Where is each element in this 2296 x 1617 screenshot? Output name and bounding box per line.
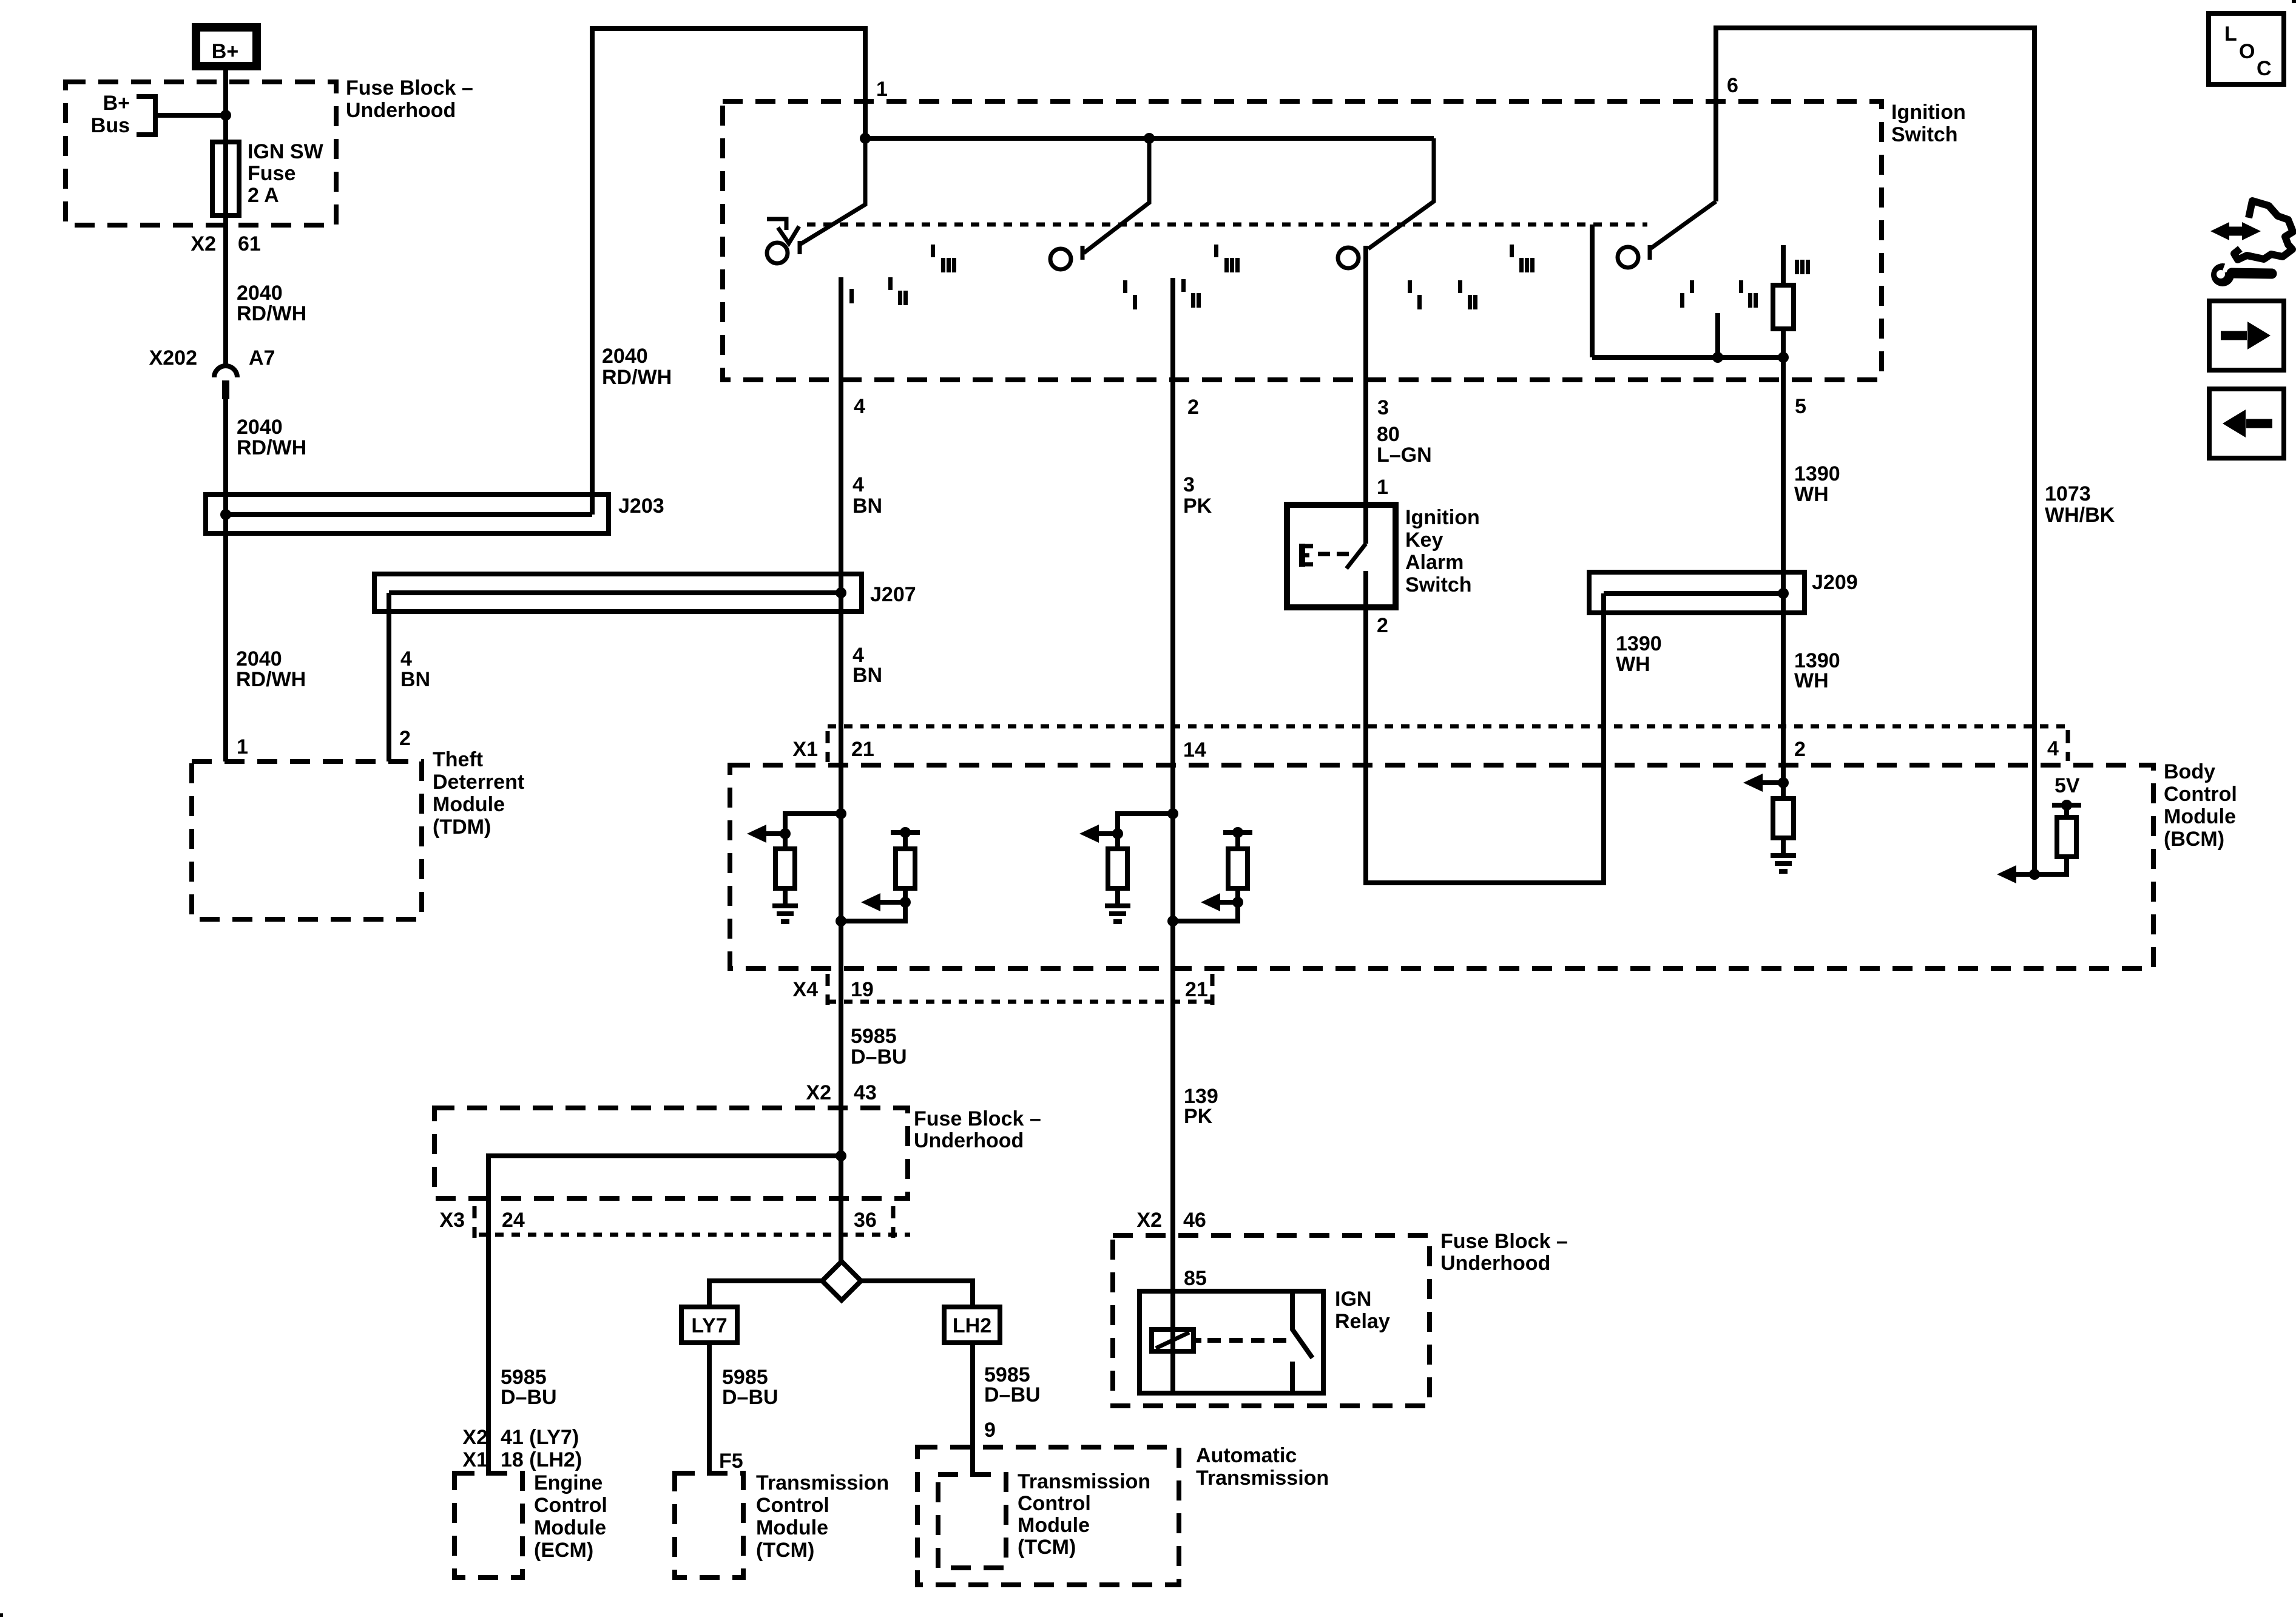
mechanical coupling dotted line [807, 223, 1647, 227]
svg-text:PK: PK [1183, 495, 1212, 518]
svg-text:Control: Control [756, 1494, 829, 1517]
wire BCM branch A [785, 814, 841, 849]
svg-text:1073: 1073 [2045, 482, 2091, 505]
wire 2040 RD/WH down to TDM [223, 398, 228, 761]
wire J203 internal bus [226, 512, 592, 517]
svg-text:Fuse Block –: Fuse Block – [346, 76, 473, 100]
svg-text:2: 2 [1794, 738, 1806, 761]
contact circle switch 2 [1050, 249, 1071, 269]
Ignition Key Alarm Switch box [1287, 505, 1396, 607]
relay coil [1152, 1329, 1194, 1351]
svg-text:LY7: LY7 [691, 1314, 727, 1337]
svg-text:36: 36 [854, 1209, 877, 1232]
svg-text:Fuse: Fuse [248, 162, 295, 185]
svg-text:Underhood: Underhood [346, 99, 456, 122]
svg-text:Key: Key [1405, 528, 1443, 552]
svg-text:L: L [2224, 22, 2237, 46]
key actuation dashes [1318, 552, 1354, 556]
svg-text:Module: Module [1018, 1514, 1090, 1537]
switch wiper 2 [1084, 138, 1149, 253]
arrow (internal signal, branch D) [1220, 900, 1238, 905]
arrow (internal signal, branch F) [2016, 872, 2034, 877]
icon diagnostic zigzag outline [2234, 201, 2293, 260]
svg-text:Transmission: Transmission [1196, 1467, 1329, 1490]
connector X1 bracket left [826, 731, 830, 762]
svg-text:WH: WH [1794, 669, 1829, 692]
svg-text:Module: Module [2164, 805, 2236, 828]
node 1073 wire end [2029, 869, 2040, 880]
svg-text:C: C [2257, 57, 2272, 80]
connector X3 line (fine dotted) [479, 1233, 910, 1237]
icon diagnostic double arrow [2226, 227, 2245, 236]
svg-text:Ignition: Ignition [1405, 506, 1480, 529]
Body Control Module box (dashed) [730, 765, 2153, 968]
page artifact top-right [2292, 0, 2296, 3]
ground (BCM C) [1105, 906, 1130, 922]
wire alarm switch pin 2 to J209 splice [1366, 571, 1604, 883]
ground (BCM E) [1771, 856, 1796, 871]
icon LOC box [2209, 13, 2284, 84]
wire B+ down through fuse [223, 66, 228, 366]
resistor (ignition switch internal) [1781, 245, 1786, 285]
svg-text:Relay: Relay [1335, 1310, 1390, 1333]
svg-text:BN: BN [853, 495, 882, 518]
wire pin 4 (4 BN) down through J207 and BCM to fuse block [839, 277, 843, 1262]
svg-text:9: 9 [984, 1419, 996, 1442]
svg-text:Deterrent: Deterrent [433, 771, 524, 794]
svg-text:6: 6 [1727, 74, 1738, 97]
icon arrow-right box [2209, 301, 2284, 370]
switch 1 position mark II [888, 277, 893, 290]
svg-text:A7: A7 [249, 346, 275, 370]
resistor (BCM pull-up F) [2064, 805, 2069, 817]
svg-text:BN: BN [400, 668, 430, 691]
svg-text:(TCM): (TCM) [756, 1539, 814, 1562]
wire pin 6 (1073 WH/BK) up over and down right side [1716, 28, 2034, 874]
svg-text:D–BU: D–BU [851, 1045, 907, 1068]
svg-text:4: 4 [400, 647, 412, 670]
alarm switch blade [1346, 544, 1366, 569]
svg-text:WH: WH [1616, 653, 1650, 676]
svg-text:Switch: Switch [1405, 573, 1472, 596]
svg-text:Fuse Block –: Fuse Block – [914, 1107, 1041, 1130]
svg-text:Module: Module [756, 1516, 828, 1539]
svg-text:Body: Body [2164, 760, 2215, 783]
svg-text:Control: Control [2164, 783, 2237, 806]
Fuse Block - Underhood box 3 (dashed) [1113, 1235, 1430, 1406]
node J209 splice [1778, 588, 1789, 599]
resistor (BCM pull-down C) [1108, 849, 1127, 888]
svg-text:PK: PK [1184, 1105, 1213, 1128]
svg-text:Engine: Engine [534, 1471, 603, 1494]
wire J207 internal bus [389, 590, 841, 595]
svg-text:X2: X2 [1136, 1209, 1162, 1232]
switch wiper 3 [1368, 138, 1434, 249]
svg-text:5985: 5985 [851, 1025, 897, 1048]
svg-text:IGN SW: IGN SW [248, 140, 324, 163]
svg-text:X1: X1 [792, 738, 818, 761]
ground (BCM A) [772, 906, 798, 922]
Fuse Block - Underhood box (top left, dashed) [66, 82, 336, 225]
arrow (internal signal, branch C) [1098, 831, 1118, 836]
svg-text:Module: Module [534, 1516, 606, 1539]
switch 2 position mark I [1123, 280, 1127, 293]
LY7 engine code box [681, 1307, 737, 1343]
connector X4 line (fine dotted) [828, 1000, 1214, 1004]
svg-text:LH2: LH2 [953, 1314, 991, 1337]
svg-text:J209: J209 [1812, 571, 1858, 594]
svg-text:X1: X1 [462, 1448, 488, 1471]
switch 3 position mark II [1458, 280, 1462, 293]
B+ terminal box [196, 27, 257, 66]
svg-text:2: 2 [1187, 396, 1199, 419]
svg-text:2 A: 2 A [248, 184, 279, 207]
svg-text:(TCM): (TCM) [1018, 1536, 1076, 1559]
svg-text:24: 24 [502, 1209, 525, 1232]
svg-text:Bus: Bus [91, 114, 130, 137]
svg-text:(TDM): (TDM) [433, 815, 491, 839]
svg-text:Transmission: Transmission [756, 1471, 889, 1494]
splice J209 box [1589, 572, 1805, 613]
key symbol E [1299, 544, 1305, 567]
svg-text:Automatic: Automatic [1196, 1444, 1297, 1467]
Engine Control Module box (dashed) [454, 1473, 522, 1578]
svg-text:RD/WH: RD/WH [237, 302, 306, 325]
svg-text:4: 4 [2047, 737, 2059, 760]
svg-text:Transmission: Transmission [1018, 1470, 1150, 1493]
page artifact bottom-left [0, 1613, 3, 1617]
switch wiper 1 [800, 138, 865, 245]
wire pin 5 (1390 WH) down through J209 to BCM [1781, 357, 1786, 783]
svg-text:61: 61 [238, 232, 261, 255]
svg-text:X2: X2 [806, 1081, 831, 1104]
svg-text:O: O [2239, 40, 2255, 63]
svg-text:Module: Module [433, 793, 505, 816]
node BCM wire C lower junction [1167, 916, 1178, 927]
svg-text:5V: 5V [2055, 774, 2080, 797]
resistor (BCM pull-down E) [1781, 783, 1786, 798]
splice diamond [822, 1261, 861, 1300]
svg-text:46: 46 [1183, 1209, 1206, 1232]
arrow (internal signal, branch E) [1762, 780, 1783, 785]
node BCM input E junction [1778, 777, 1789, 788]
node branch C [1112, 828, 1123, 839]
connector X4 bracket left [826, 974, 830, 1005]
svg-text:Alarm: Alarm [1405, 551, 1464, 574]
node bus/pin1 [860, 133, 871, 144]
wire BCM branch C [1118, 814, 1173, 849]
wire 4 BN branch to TDM pin 2 [387, 593, 391, 761]
wire diamond left branch [709, 1281, 822, 1307]
svg-text:4: 4 [854, 395, 865, 418]
arrow (internal signal, branch B) [880, 900, 905, 905]
connector X3 bracket left [473, 1206, 477, 1238]
node arrow B [900, 897, 911, 908]
node BCM input C junction [1167, 808, 1178, 819]
svg-text:5: 5 [1795, 395, 1806, 418]
svg-text:4: 4 [853, 473, 864, 496]
svg-text:2040: 2040 [236, 647, 282, 670]
svg-text:D–BU: D–BU [722, 1386, 778, 1409]
svg-text:2040: 2040 [237, 282, 283, 305]
svg-text:D–BU: D–BU [501, 1386, 557, 1409]
svg-text:3: 3 [1183, 473, 1195, 496]
connector X1 bracket right [2066, 730, 2070, 761]
node J207 splice [836, 587, 846, 598]
svg-text:3: 3 [1377, 396, 1389, 419]
svg-text:X2: X2 [191, 232, 216, 255]
svg-text:Underhood: Underhood [1440, 1252, 1550, 1275]
svg-text:X3: X3 [439, 1209, 465, 1232]
svg-text:D–BU: D–BU [984, 1383, 1041, 1406]
node bus/switch2 [1144, 133, 1155, 144]
svg-text:B+: B+ [103, 92, 130, 115]
svg-text:Control: Control [534, 1494, 607, 1517]
svg-text:RD/WH: RD/WH [602, 366, 672, 389]
IGN Relay box [1140, 1291, 1323, 1393]
arrow (internal signal, branch A) [766, 831, 785, 836]
connector X4 bracket right [1210, 974, 1215, 1005]
svg-text:Ignition: Ignition [1891, 101, 1966, 124]
voltage tap crossbar (BCM B) [891, 830, 920, 835]
svg-text:80: 80 [1377, 423, 1400, 446]
Theft Deterrent Module box (dashed) [192, 761, 422, 919]
wire pin 3 (80 L-GN) to ignition key alarm switch [1363, 246, 1368, 544]
svg-text:2: 2 [399, 727, 411, 750]
svg-text:Fuse Block –: Fuse Block – [1440, 1230, 1568, 1253]
switch 1 position mark III [931, 245, 935, 257]
fuse IGN SW Fuse 2A [212, 142, 239, 215]
svg-text:18 (LH2): 18 (LH2) [501, 1448, 582, 1471]
svg-text:41 (LY7): 41 (LY7) [501, 1426, 579, 1449]
svg-text:1390: 1390 [1794, 462, 1840, 485]
relay coil stub [1194, 1338, 1201, 1343]
switch 2 position mark III [1214, 245, 1218, 257]
voltage tap crossbar (BCM F 5V) [2052, 803, 2081, 808]
Transmission Control Module box 1 (dashed) [675, 1473, 743, 1578]
switch 3 position mark I [1408, 280, 1412, 293]
node arrow D [1232, 897, 1243, 908]
node resistor junction [1778, 352, 1789, 363]
relay contact [1292, 1291, 1312, 1358]
wire 2040 RD/WH riser to ignition switch pin 1 [592, 29, 865, 515]
connector X3 bracket right [891, 1206, 896, 1238]
Ignition Switch box (dashed) [723, 101, 1882, 380]
connector X202 A7 inline symbol [214, 366, 237, 377]
LH2 engine code box [944, 1307, 1000, 1343]
node fuse block 2 splice [836, 1150, 846, 1161]
switch 3 position mark III [1510, 245, 1514, 257]
svg-text:14: 14 [1183, 738, 1206, 761]
svg-text:1: 1 [237, 735, 248, 758]
svg-text:J207: J207 [870, 583, 916, 606]
wire pin 2 (3 PK / 139 PK) down to IGN relay coil [1170, 278, 1175, 1393]
wire branch to ECM [488, 1156, 841, 1476]
svg-text:X202: X202 [149, 346, 197, 370]
svg-text:1390: 1390 [1616, 632, 1662, 655]
svg-text:X4: X4 [792, 978, 818, 1001]
resistor (BCM pull-up D) [1235, 832, 1240, 849]
svg-text:Theft: Theft [433, 748, 483, 771]
resistor (BCM pull-up B) [903, 832, 908, 849]
node B+ bus junction [220, 110, 231, 121]
svg-text:1: 1 [1377, 476, 1388, 499]
key position symbol (lock/V) [767, 219, 786, 230]
contact circle switch 4 [1618, 247, 1638, 268]
svg-text:F5: F5 [719, 1450, 743, 1473]
B+ Bus bracket terminal [137, 96, 155, 135]
switch 4 position mark I [1680, 293, 1684, 308]
svg-text:2040: 2040 [237, 416, 283, 439]
wire B+ Bus to main [155, 113, 226, 118]
svg-text:21: 21 [1185, 978, 1208, 1001]
svg-text:(BCM): (BCM) [2164, 828, 2224, 851]
contact circle switch 1 [767, 243, 788, 263]
svg-text:2: 2 [1377, 614, 1388, 637]
switch 4 contact network: bottom bus [1592, 355, 1783, 360]
wire ignition switch internal bus [865, 136, 1434, 141]
resistor (BCM pull-down A) [775, 849, 795, 888]
svg-text:2040: 2040 [602, 345, 648, 368]
relay actuation dashes [1207, 1338, 1288, 1343]
node stub junction [1712, 352, 1723, 363]
svg-text:BN: BN [853, 664, 882, 687]
voltage tap crossbar (BCM D) [1223, 830, 1252, 835]
Transmission Control Module box 2 (dashed) [938, 1474, 1006, 1568]
wire LH2 to TCM [970, 1343, 975, 1477]
switch wiper 4 [1651, 201, 1716, 248]
svg-text:X2: X2 [462, 1426, 488, 1449]
switch 2 position mark II [1181, 279, 1186, 292]
switch 1 position mark I [849, 289, 854, 303]
svg-text:(ECM): (ECM) [534, 1539, 593, 1562]
Fuse Block - Underhood box 2 (dashed) [434, 1108, 908, 1198]
Automatic Transmission box (dashed) [917, 1447, 1179, 1585]
svg-text:Control: Control [1018, 1492, 1091, 1515]
switch 4 contact network: left leg [1590, 224, 1595, 357]
svg-text:21: 21 [851, 738, 874, 761]
icon wrench [2211, 263, 2234, 286]
connector X1 line (fine dotted) [828, 724, 2070, 729]
wire LY7 to TCM [707, 1343, 712, 1476]
svg-text:Underhood: Underhood [914, 1129, 1024, 1152]
wire diamond right branch [861, 1281, 973, 1307]
switch 4 position mark II [1739, 280, 1743, 293]
icon arrow-left box [2209, 389, 2284, 458]
wire J209 internal bus [1604, 591, 1783, 596]
splice J207 box [374, 574, 862, 612]
splice J203 box [206, 495, 609, 533]
svg-text:B+: B+ [212, 40, 238, 63]
svg-text:IGN: IGN [1335, 1288, 1371, 1311]
switch 4 position mark III [1795, 260, 1799, 274]
svg-text:43: 43 [854, 1081, 877, 1104]
node BCM wire A lower junction [836, 916, 846, 927]
contact circle switch 3 [1338, 248, 1359, 268]
svg-text:85: 85 [1184, 1267, 1207, 1290]
svg-text:RD/WH: RD/WH [236, 668, 306, 691]
svg-text:Switch: Switch [1891, 123, 1958, 146]
svg-text:1: 1 [876, 78, 888, 101]
svg-text:J203: J203 [618, 495, 664, 518]
svg-text:L–GN: L–GN [1377, 444, 1432, 467]
node J203 splice [220, 509, 231, 520]
svg-text:RD/WH: RD/WH [237, 436, 306, 459]
svg-text:WH: WH [1794, 483, 1829, 506]
switch 4 contact stub [1715, 313, 1720, 357]
svg-text:WH/BK: WH/BK [2045, 504, 2115, 527]
node BCM input A junction [836, 808, 846, 819]
svg-text:19: 19 [851, 978, 874, 1001]
node branch A [780, 828, 791, 839]
